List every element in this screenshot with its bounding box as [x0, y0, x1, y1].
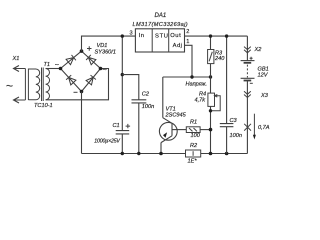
resistor R3	[208, 50, 214, 64]
svg-text:~: ~	[103, 65, 108, 74]
node R1 right junction	[209, 128, 213, 132]
svg-text:SY360/1: SY360/1	[95, 49, 116, 55]
node bridge right (~)	[99, 67, 103, 71]
connector X2 chevrons	[244, 47, 251, 53]
node rail C3	[225, 152, 229, 156]
wire R3 bottom lead	[210, 64, 212, 77]
node rail emitter	[159, 152, 163, 156]
filter vertical wire from input rail	[121, 36, 123, 153]
node Adj-pin junction	[190, 75, 193, 78]
diode upper-left of VD1	[66, 55, 76, 65]
svg-text:VD1: VD1	[97, 43, 108, 49]
diode lower-right of VD1	[86, 75, 96, 85]
resistor R2 in rail	[186, 150, 201, 157]
wire secondary top to bridge left node	[46, 68, 61, 70]
minus mark at bridge	[74, 91, 78, 93]
plus mark of C1	[126, 124, 131, 128]
svg-text:240: 240	[214, 56, 225, 62]
potentiometer R4	[208, 93, 220, 111]
node bridge bottom (-)	[80, 90, 84, 94]
transformer T1 primary terminal double line	[25, 69, 28, 101]
svg-text:3: 3	[130, 31, 133, 37]
svg-text:Adj: Adj	[173, 43, 183, 49]
svg-text:X1: X1	[12, 56, 20, 62]
svg-text:TC10-1: TC10-1	[34, 103, 53, 109]
transformer T1 core	[42, 68, 44, 102]
capacitor C2	[132, 100, 147, 103]
node bridge left (~)	[59, 67, 63, 71]
wire output rail from DA1 pin2	[185, 35, 248, 37]
svg-text:100: 100	[191, 133, 201, 139]
transformer T1 primary winding	[28, 69, 39, 100]
svg-text:1Е*: 1Е*	[188, 159, 198, 165]
node Adj-R3 junction	[209, 75, 212, 78]
svg-text:T1: T1	[44, 62, 51, 68]
svg-text:X2: X2	[254, 47, 263, 53]
svg-text:100n: 100n	[230, 133, 242, 139]
svg-text:C3: C3	[230, 118, 238, 124]
current arrow 0,7A	[253, 114, 256, 140]
resistor R1	[186, 127, 200, 133]
battery GB1	[241, 61, 255, 81]
break mark X on wire	[244, 124, 251, 131]
wire VT1 emitter to rail	[160, 143, 162, 154]
wire R4 bottom lead	[210, 106, 212, 153]
transistor VT1	[159, 118, 186, 143]
node rail C2	[137, 152, 140, 155]
plus mark at bridge	[87, 46, 92, 50]
wire Adj net horizontal	[163, 76, 211, 78]
wire bridge top to input rail	[82, 36, 136, 51]
node input rail / C1	[121, 34, 124, 37]
svg-text:2: 2	[186, 29, 189, 35]
node R4 wiper junction	[209, 109, 212, 112]
svg-text:Напряж.: Напряж.	[186, 82, 208, 88]
svg-text:4,7k: 4,7k	[195, 98, 207, 104]
wire bottom rail right section	[201, 153, 248, 155]
connector X3 chevrons	[244, 91, 251, 97]
minus mark of GB1	[250, 82, 253, 84]
svg-text:STU: STU	[155, 34, 169, 40]
wire right branch vertical	[246, 36, 248, 153]
regulator DA1 box	[135, 29, 184, 52]
svg-text:C2: C2	[142, 92, 150, 98]
wire R4 top lead	[210, 77, 212, 93]
wire VT1 collector to Adj net	[162, 77, 164, 118]
svg-text:~: ~	[6, 79, 13, 93]
wire bottom rail left section	[82, 153, 186, 155]
svg-text:100n: 100n	[142, 104, 154, 110]
svg-text:R2: R2	[190, 143, 198, 149]
connector X1 lower pin arrow	[14, 97, 26, 103]
node output rail / C3	[225, 34, 228, 37]
wire DA1 pin1 Adj lead	[185, 45, 193, 77]
svg-text:R1: R1	[190, 120, 197, 126]
node C2 tee	[121, 73, 124, 76]
node rail R-column	[209, 152, 213, 156]
svg-text:1: 1	[186, 39, 189, 45]
capacitor C3	[220, 36, 234, 153]
diode upper-right of VD1	[86, 55, 96, 65]
wire R3 top lead	[210, 36, 212, 49]
node rail C1	[121, 152, 124, 155]
wire R1 right lead	[200, 129, 210, 131]
svg-text:LM317(MC33269aj): LM317(MC33269aj)	[133, 22, 189, 28]
node output rail / R3	[209, 34, 212, 37]
wire secondary bottom routed under bridge to right node	[46, 69, 109, 100]
svg-text:C1: C1	[113, 123, 120, 129]
svg-text:R4: R4	[199, 91, 206, 97]
diode lower-left of VD1	[66, 75, 76, 85]
connector X1 upper pin arrow	[14, 66, 26, 72]
plus mark of GB1	[250, 57, 253, 60]
transformer T1 secondary winding	[46, 69, 50, 100]
svg-text:X3: X3	[260, 93, 269, 99]
wire C2 branch	[122, 75, 139, 154]
node bridge top (+)	[80, 49, 84, 53]
svg-text:0,7A: 0,7A	[258, 125, 270, 131]
wire bridge bottom to ground rail	[81, 92, 83, 154]
svg-text:1000µ×25V: 1000µ×25V	[94, 138, 120, 144]
svg-text:Out: Out	[170, 33, 181, 39]
svg-text:DA1: DA1	[155, 13, 167, 19]
svg-text:~: ~	[55, 60, 60, 69]
capacitor C1	[116, 131, 130, 134]
svg-text:2SC945: 2SC945	[165, 113, 187, 119]
rectifier bridge VD1 diamond wires	[61, 51, 101, 91]
svg-text:12V: 12V	[258, 73, 269, 79]
svg-text:In: In	[139, 33, 145, 39]
